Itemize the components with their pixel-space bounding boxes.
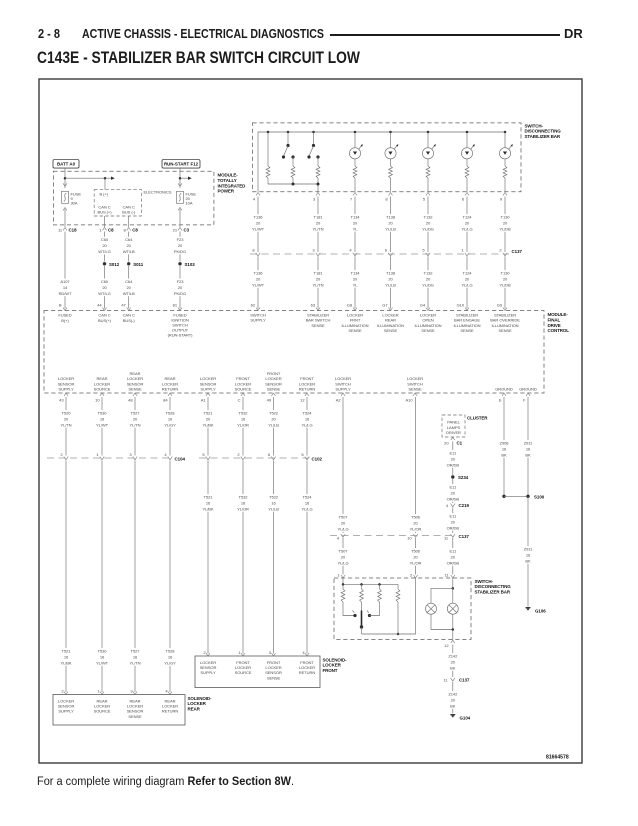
- svg-text:YL/LG: YL/LG: [301, 507, 312, 512]
- svg-text:20: 20: [444, 441, 449, 446]
- svg-text:BUS (+): BUS (+): [98, 210, 113, 215]
- svg-text:SENSE: SENSE: [267, 675, 281, 680]
- svg-text:SOURCE: SOURCE: [94, 709, 111, 714]
- svg-text:43: 43: [59, 397, 64, 402]
- svg-text:5: 5: [422, 248, 425, 253]
- svg-text:5: 5: [301, 452, 304, 457]
- wire switch supply bus: [258, 132, 505, 192]
- svg-text:FRONT: FRONT: [323, 668, 338, 673]
- svg-text:SENSE: SENSE: [460, 328, 474, 333]
- svg-text:YL/BK: YL/BK: [202, 423, 213, 428]
- resistor ladder R-A: [267, 132, 269, 166]
- splice S012: [103, 262, 106, 265]
- svg-text:T507: T507: [339, 549, 349, 554]
- svg-text:E: E: [499, 397, 502, 402]
- wire T506 YL/OR locker switch sense: [415, 397, 417, 533]
- svg-text:81664578: 81664578: [546, 754, 569, 760]
- svg-text:LOCKER: LOCKER: [188, 701, 207, 706]
- svg-text:T524: T524: [303, 495, 313, 500]
- svg-text:YL/LB: YL/LB: [385, 283, 396, 288]
- svg-text:11: 11: [444, 572, 449, 577]
- wire T524 YL/LG: [306, 397, 308, 456]
- svg-text:TOTALLY: TOTALLY: [218, 178, 237, 183]
- electronics sub-box (dashed): [94, 190, 141, 216]
- svg-text:YL/GY: YL/GY: [164, 661, 176, 666]
- svg-text:T507: T507: [339, 515, 349, 520]
- svg-text:A1: A1: [201, 397, 207, 402]
- svg-text:E11: E11: [449, 451, 456, 456]
- wire Z142 20 BK lower: [452, 682, 454, 714]
- svg-text:OR/DB: OR/DB: [447, 526, 460, 531]
- svg-text:G8: G8: [347, 303, 353, 308]
- wire lamp return: [431, 614, 453, 629]
- svg-text:SOURCE: SOURCE: [235, 670, 252, 675]
- svg-text:T181: T181: [314, 271, 324, 276]
- svg-text:LOCKER: LOCKER: [323, 663, 342, 668]
- wire sense return rail: [362, 578, 416, 634]
- splice S011: [127, 262, 130, 265]
- resistor below SW-A: [292, 157, 294, 166]
- svg-text:RD/WT: RD/WT: [59, 291, 72, 296]
- svg-text:5: 5: [202, 452, 205, 457]
- svg-text:YL/OR: YL/OR: [237, 423, 249, 428]
- svg-text:11: 11: [443, 678, 448, 683]
- svg-text:T506: T506: [411, 515, 421, 520]
- connector C102: [199, 457, 310, 459]
- svg-text:48: 48: [128, 397, 133, 402]
- svg-text:Z908: Z908: [500, 441, 510, 446]
- svg-text:F23: F23: [177, 237, 185, 242]
- svg-text:T521: T521: [204, 411, 214, 416]
- svg-text:T520: T520: [62, 411, 72, 416]
- svg-text:T528: T528: [166, 411, 176, 416]
- svg-text:BUS(-): BUS(-): [123, 318, 136, 323]
- wire T136 YL/WT upper: [257, 197, 259, 253]
- svg-text:YL/DG: YL/DG: [422, 283, 434, 288]
- resistor under LED 4: [465, 166, 469, 178]
- svg-text:1: 1: [99, 227, 102, 232]
- svg-text:4: 4: [337, 536, 340, 541]
- wire TIPM internal B+ bus: [65, 177, 111, 179]
- svg-text:3: 3: [269, 650, 272, 655]
- svg-text:PK/DG: PK/DG: [174, 291, 186, 296]
- svg-text:3: 3: [130, 689, 133, 694]
- switch pole SW-A: [287, 132, 289, 146]
- svg-text:MODULE-: MODULE-: [218, 173, 239, 178]
- svg-text:E11: E11: [449, 485, 456, 490]
- svg-text:1: 1: [461, 248, 464, 253]
- svg-text:B: B: [59, 303, 62, 308]
- svg-text:OR/DB: OR/DB: [447, 561, 460, 566]
- resistor ladder lower R4: [397, 584, 399, 589]
- wire T527 YL/TN: [134, 397, 136, 456]
- svg-text:2: 2: [203, 650, 206, 655]
- svg-text:E11: E11: [449, 514, 456, 519]
- svg-text:T521: T521: [204, 495, 214, 500]
- svg-text:T124: T124: [463, 271, 473, 276]
- svg-text:YL/BK: YL/BK: [60, 661, 71, 666]
- wire T520 YL/TN: [65, 397, 67, 456]
- svg-text:S103: S103: [185, 262, 196, 267]
- svg-text:C219: C219: [459, 503, 470, 508]
- module-final drive control (dashed box): [44, 311, 544, 394]
- svg-text:STABILIZER BAR: STABILIZER BAR: [475, 589, 511, 594]
- illumination lamp 2: [447, 603, 458, 614]
- svg-text:T132: T132: [424, 215, 434, 220]
- svg-text:T130: T130: [501, 271, 511, 276]
- wire F23 20 PK/DG: [179, 232, 181, 262]
- svg-text:4: 4: [165, 689, 168, 694]
- svg-text:C8: C8: [108, 227, 114, 232]
- svg-text:RETURN: RETURN: [299, 387, 316, 392]
- connector C137 (row 2): [330, 535, 455, 537]
- svg-text:1: 1: [337, 572, 340, 577]
- wire Z908 16 BK ground E: [503, 397, 505, 496]
- svg-text:T532: T532: [239, 411, 249, 416]
- svg-text:YL/WT: YL/WT: [252, 227, 265, 232]
- svg-text:SOLENOID-: SOLENOID-: [323, 657, 348, 662]
- svg-text:YL/TN: YL/TN: [60, 423, 71, 428]
- switch-disconnecting stabilizer bar lower (dashed box): [334, 578, 471, 640]
- svg-text:63: 63: [311, 303, 316, 308]
- splice S234: [451, 475, 454, 478]
- svg-text:BK: BK: [501, 453, 507, 458]
- svg-text:SOURCE: SOURCE: [94, 387, 111, 392]
- svg-text:SUPPLY: SUPPLY: [200, 670, 216, 675]
- svg-text:1: 1: [97, 689, 100, 694]
- wire switch supply rail: [343, 578, 398, 584]
- svg-text:C137: C137: [459, 678, 470, 683]
- svg-text:A10: A10: [406, 397, 414, 402]
- svg-text:T124: T124: [463, 215, 473, 220]
- wire T532 YL/OR: [242, 397, 244, 456]
- svg-text:C3: C3: [184, 227, 190, 232]
- svg-text:YL/OR: YL/OR: [410, 561, 422, 566]
- svg-text:T521: T521: [62, 649, 72, 654]
- wire E11 20 OR/DB: [452, 442, 454, 476]
- svg-text:C1: C1: [457, 441, 463, 446]
- wire T181 YL/TN upper: [317, 197, 319, 253]
- svg-text:F: F: [523, 397, 526, 402]
- wire T522 YL/LB: [273, 397, 275, 456]
- svg-text:YL/LB: YL/LB: [268, 423, 279, 428]
- svg-text:SENSE: SENSE: [421, 328, 435, 333]
- svg-text:YL/LG: YL/LG: [461, 227, 472, 232]
- svg-text:YL/LG: YL/LG: [301, 423, 312, 428]
- svg-text:T138: T138: [386, 215, 396, 220]
- svg-text:T527: T527: [131, 649, 141, 654]
- svg-text:SENSE: SENSE: [311, 323, 325, 328]
- border frame: [39, 79, 582, 763]
- wire T521 YL/BK: [207, 397, 209, 456]
- wire T130 YL/DB upper: [504, 197, 506, 253]
- svg-text:RETURN: RETURN: [162, 709, 179, 714]
- svg-text:21: 21: [173, 227, 178, 232]
- svg-text:RUN-START F12: RUN-START F12: [164, 162, 199, 167]
- resistor below SW-B: [317, 157, 319, 166]
- svg-text:BK: BK: [450, 704, 456, 709]
- svg-text:GROUND: GROUND: [519, 387, 537, 392]
- svg-text:4: 4: [446, 503, 449, 508]
- wire T522 YL/LB to front solenoid: [273, 461, 275, 654]
- svg-text:ELECTRONICS: ELECTRONICS: [144, 190, 172, 195]
- svg-text:G4: G4: [420, 303, 426, 308]
- wire B+ branch to electronics: [104, 178, 106, 189]
- svg-text:5: 5: [423, 196, 426, 201]
- svg-text:3: 3: [313, 196, 316, 201]
- svg-text:CONTROL: CONTROL: [548, 328, 570, 333]
- svg-text:T134: T134: [351, 271, 361, 276]
- indicator LED 1: [354, 132, 356, 148]
- wire T181 YL/TN lower: [317, 257, 319, 309]
- svg-text:G104: G104: [460, 715, 471, 720]
- svg-text:YL/BK: YL/BK: [202, 507, 213, 512]
- svg-text:4: 4: [349, 248, 352, 253]
- svg-text:C137: C137: [459, 534, 470, 539]
- svg-text:SENSE: SENSE: [348, 328, 362, 333]
- svg-text:YL/LB: YL/LB: [385, 227, 396, 232]
- svg-text:6: 6: [268, 452, 271, 457]
- fuse F20 10A: [178, 183, 182, 186]
- svg-text:BK: BK: [525, 559, 531, 564]
- svg-text:YL/LG: YL/LG: [337, 561, 348, 566]
- svg-text:12: 12: [300, 397, 305, 402]
- svg-text:DISCONNECTING: DISCONNECTING: [525, 129, 562, 134]
- svg-text:C60: C60: [101, 279, 109, 284]
- svg-text:2: 2: [60, 452, 63, 457]
- node BATT A0: [53, 160, 79, 169]
- svg-text:T522: T522: [269, 411, 279, 416]
- wire fuse 9 output: [64, 209, 66, 227]
- svg-text:YL/LG: YL/LG: [337, 527, 348, 532]
- svg-text:10: 10: [407, 536, 412, 541]
- svg-text:T530: T530: [98, 411, 108, 416]
- svg-text:8: 8: [385, 196, 388, 201]
- svg-text:C137: C137: [512, 249, 523, 254]
- svg-text:REAR: REAR: [188, 706, 201, 711]
- svg-text:YL/WT: YL/WT: [96, 661, 109, 666]
- indicator LED 4: [466, 132, 468, 148]
- svg-text:10A: 10A: [186, 201, 193, 206]
- svg-text:C: C: [238, 397, 241, 402]
- svg-text:S234: S234: [458, 475, 469, 480]
- svg-text:BK: BK: [525, 453, 531, 458]
- connector C137 (row 1): [250, 253, 509, 255]
- svg-text:POWER: POWER: [218, 189, 235, 194]
- svg-text:C18: C18: [69, 227, 78, 232]
- svg-text:G9: G9: [497, 303, 503, 308]
- indicator LED 5: [504, 132, 506, 148]
- svg-text:G10: G10: [457, 303, 465, 308]
- svg-text:BUS(+): BUS(+): [98, 318, 112, 323]
- svg-text:C60: C60: [101, 237, 109, 242]
- svg-text:PANEL: PANEL: [447, 420, 460, 425]
- svg-text:T527: T527: [131, 411, 141, 416]
- svg-text:YL/TN: YL/TN: [129, 661, 140, 666]
- svg-text:Z142: Z142: [448, 692, 458, 697]
- wire T524 YL/LG to front solenoid: [306, 461, 308, 654]
- svg-text:WT/LG: WT/LG: [98, 249, 110, 254]
- resistor under LED 5: [503, 166, 507, 178]
- svg-text:9: 9: [500, 196, 503, 201]
- svg-text:30A: 30A: [71, 201, 78, 206]
- svg-text:T138: T138: [386, 271, 396, 276]
- wire T507 YL/LG locker switch supply: [342, 397, 344, 533]
- wire Z142 20 BK upper: [452, 645, 454, 678]
- svg-text:Z911: Z911: [524, 547, 533, 552]
- svg-text:YL/DG: YL/DG: [422, 227, 434, 232]
- wire T521 YL/BK to front solenoid: [207, 461, 209, 654]
- svg-text:YL/TN: YL/TN: [312, 227, 323, 232]
- svg-text:WT/LB: WT/LB: [123, 291, 135, 296]
- svg-text:SENSE: SENSE: [384, 328, 398, 333]
- svg-text:SOLENOID-: SOLENOID-: [188, 696, 213, 701]
- svg-text:YL/TN: YL/TN: [129, 423, 140, 428]
- svg-text:3: 3: [129, 452, 132, 457]
- svg-text:Z911: Z911: [524, 441, 533, 446]
- svg-text:SENSE: SENSE: [408, 387, 422, 392]
- wire T134 YL upper: [354, 197, 356, 253]
- wire T138 YL/LB upper: [390, 197, 392, 253]
- svg-text:SENSE: SENSE: [128, 714, 142, 719]
- svg-text:MODULE-: MODULE-: [548, 312, 569, 317]
- svg-text:A2: A2: [336, 397, 342, 402]
- svg-text:2: 2: [499, 248, 502, 253]
- svg-text:C64: C64: [125, 237, 133, 242]
- svg-text:G7: G7: [382, 303, 388, 308]
- svg-text:7: 7: [350, 196, 353, 201]
- svg-text:G106: G106: [535, 608, 546, 613]
- svg-text:BUS (-): BUS (-): [122, 210, 136, 215]
- svg-text:A107: A107: [60, 279, 70, 284]
- svg-text:12: 12: [444, 643, 449, 648]
- svg-text:S011: S011: [133, 262, 144, 267]
- wire T132 YL/DG lower: [427, 257, 429, 309]
- wire C64 WT/LB upper: [128, 216, 130, 227]
- wire T124 YL/LG lower: [466, 257, 468, 309]
- resistor under LED 1: [353, 166, 357, 178]
- page footer: [37, 776, 294, 788]
- svg-text:DRIVE: DRIVE: [548, 323, 561, 328]
- svg-text:T130: T130: [501, 215, 511, 220]
- wire T528 YL/GY: [169, 397, 171, 456]
- svg-text:2: 2: [237, 452, 240, 457]
- svg-text:RETURN: RETURN: [162, 387, 179, 392]
- wire RUN-START to fuse 20: [179, 168, 181, 188]
- svg-text:SUPPLY: SUPPLY: [200, 387, 216, 392]
- svg-text:YL/OR: YL/OR: [237, 507, 249, 512]
- svg-text:11: 11: [444, 536, 449, 541]
- svg-text:S012: S012: [109, 262, 120, 267]
- svg-text:BK: BK: [450, 666, 456, 671]
- svg-text:LAMPS: LAMPS: [447, 425, 461, 430]
- svg-text:CLUSTER: CLUSTER: [467, 416, 488, 421]
- svg-text:44: 44: [97, 303, 102, 308]
- svg-text:T530: T530: [98, 649, 108, 654]
- svg-text:3: 3: [312, 248, 315, 253]
- page title: [37, 48, 360, 68]
- svg-text:YL: YL: [353, 227, 359, 232]
- splice S103: [178, 262, 181, 265]
- wire A107 14 RD/WT: [64, 232, 66, 309]
- svg-text:YL: YL: [353, 283, 359, 288]
- splice S100: [526, 495, 529, 498]
- svg-text:BATT A0: BATT A0: [57, 162, 76, 167]
- svg-text:4: 4: [302, 650, 305, 655]
- switch-disconnecting stabilizer bar (dashed box): [252, 123, 521, 192]
- svg-text:T522: T522: [269, 495, 279, 500]
- svg-text:11: 11: [58, 227, 63, 232]
- svg-text:SUPPLY: SUPPLY: [58, 709, 74, 714]
- svg-text:8: 8: [124, 227, 127, 232]
- wire illumination feed: [452, 578, 454, 588]
- svg-text:C8: C8: [132, 227, 138, 232]
- wire T130 YL/DB lower: [504, 257, 506, 309]
- indicator LED 3: [427, 132, 429, 148]
- wire T530 YL/WT: [101, 397, 103, 456]
- svg-text:10: 10: [95, 397, 100, 402]
- svg-text:RETURN: RETURN: [299, 670, 316, 675]
- svg-text:FUSED: FUSED: [58, 313, 71, 318]
- svg-text:YL/LB: YL/LB: [268, 507, 279, 512]
- svg-text:62: 62: [251, 303, 256, 308]
- svg-text:SWITCH-: SWITCH-: [525, 123, 544, 128]
- wire C60 WT/LG upper: [104, 216, 106, 227]
- svg-text:T136: T136: [254, 271, 264, 276]
- svg-text:CAN C: CAN C: [98, 313, 110, 318]
- wire T124 YL/LG upper: [466, 197, 468, 253]
- connector C104: [47, 457, 173, 459]
- svg-text:1: 1: [238, 650, 241, 655]
- svg-text:T136: T136: [254, 215, 264, 220]
- svg-text:T134: T134: [351, 215, 361, 220]
- svg-text:WT/LB: WT/LB: [123, 249, 135, 254]
- wire T521 YL/BK to rear solenoid: [65, 461, 67, 693]
- resistor ladder lower R1: [342, 584, 344, 589]
- svg-text:C104: C104: [175, 457, 186, 462]
- svg-text:47: 47: [121, 303, 126, 308]
- wire T530 YL/WT to rear solenoid: [101, 461, 103, 693]
- cluster (dashed box): [442, 415, 465, 437]
- svg-text:SENSE: SENSE: [498, 328, 512, 333]
- solenoid-locker front (box): [195, 656, 320, 688]
- svg-text:2: 2: [61, 689, 64, 694]
- svg-text:FINAL: FINAL: [548, 317, 561, 322]
- svg-text:T528: T528: [166, 649, 176, 654]
- svg-text:CAN C: CAN C: [123, 313, 135, 318]
- svg-text:OR/DB: OR/DB: [447, 497, 460, 502]
- svg-text:S100: S100: [534, 494, 545, 499]
- wire T527 YL/TN to rear solenoid: [134, 461, 136, 693]
- svg-text:YL/TN: YL/TN: [312, 283, 323, 288]
- svg-text:YL/DB: YL/DB: [499, 283, 511, 288]
- svg-text:SENSE: SENSE: [128, 387, 142, 392]
- wire T532 YL/OR to front solenoid: [242, 461, 244, 654]
- svg-text:YL/LG: YL/LG: [461, 283, 472, 288]
- wire T138 YL/LB lower: [390, 257, 392, 309]
- svg-text:SUPPLY: SUPPLY: [335, 387, 351, 392]
- svg-text:1: 1: [96, 452, 99, 457]
- svg-text:49: 49: [267, 397, 272, 402]
- svg-text:GROUND: GROUND: [495, 387, 513, 392]
- svg-text:T132: T132: [424, 271, 434, 276]
- svg-text:WT/LG: WT/LG: [98, 291, 110, 296]
- svg-text:C102: C102: [312, 457, 323, 462]
- solenoid-locker rear (box): [53, 695, 185, 726]
- svg-text:4: 4: [164, 452, 167, 457]
- switch pole SW-B: [313, 132, 315, 146]
- svg-text:F23: F23: [177, 279, 185, 284]
